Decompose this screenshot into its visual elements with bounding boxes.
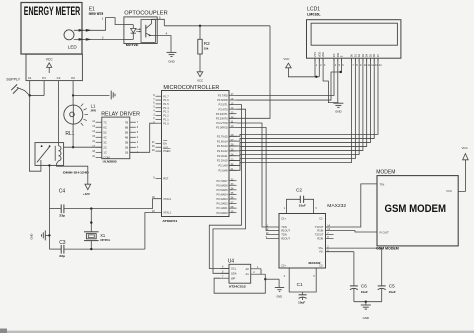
svg-text:R2OUT: R2OUT [281, 237, 290, 241]
svg-text:P1.2: P1.2 [163, 114, 169, 118]
svg-text:X1: X1 [100, 233, 106, 238]
svg-text:240V: 240V [91, 108, 97, 112]
svg-text:2C: 2C [103, 145, 106, 149]
node R2 top junction [199, 25, 201, 27]
svg-text:P1.1: P1.1 [163, 117, 169, 121]
svg-text:A1: A1 [246, 272, 250, 276]
crystal X1 [84, 207, 99, 250]
svg-text:D4: D4 [365, 53, 369, 57]
svg-text:ENERGY METER: ENERGY METER [24, 6, 81, 18]
svg-text:P2.1/A9: P2.1/A9 [218, 164, 228, 168]
wire RW to ground [337, 58, 339, 103]
svg-text:6B: 6B [125, 125, 128, 129]
node P2 branch [72, 94, 74, 96]
relay driver title [101, 112, 140, 118]
LED indicator circle [64, 30, 77, 50]
svg-text:3C: 3C [103, 140, 106, 144]
svg-text:T1OUT: T1OUT [315, 225, 324, 229]
svg-text:TIN: TIN [380, 183, 385, 187]
svg-text:U4: U4 [228, 259, 235, 265]
svg-text:A0: A0 [246, 267, 250, 271]
svg-text:P1.4: P1.4 [163, 106, 169, 110]
svg-text:33p: 33p [59, 254, 66, 258]
svg-text:6C: 6C [103, 125, 106, 129]
svg-text:R1OUT: R1OUT [281, 229, 290, 233]
wire D1 to P2.1 [229, 58, 355, 165]
svg-text:5B: 5B [125, 130, 128, 134]
LCD display box [307, 20, 401, 59]
capacitor C3 [49, 240, 144, 258]
svg-text:T1IN: T1IN [281, 225, 287, 229]
arrow marks on wire 1 [79, 29, 92, 32]
svg-text:P3.5/T1: P3.5/T1 [219, 103, 229, 107]
resistor R2 [198, 26, 210, 72]
svg-text:D2: D2 [357, 53, 361, 57]
label X1 CRYSTAL [100, 233, 110, 242]
wire D3 to P2.3 [229, 58, 363, 156]
label SUPPLY arrow wires [29, 81, 45, 97]
supply plug symbol [6, 77, 30, 95]
svg-text:MAX232: MAX232 [327, 203, 346, 209]
svg-text:SDA: SDA [231, 271, 237, 275]
svg-text:R1IN: R1IN [317, 229, 323, 233]
optocoupler coupling arrows [136, 28, 141, 32]
svg-text:P3.3/INT1: P3.3/INT1 [216, 112, 228, 116]
svg-text:AT89C51: AT89C51 [162, 219, 177, 223]
wire C2 to relay coil [58, 81, 60, 143]
svg-text:GND: GND [168, 59, 174, 63]
svg-text:P2.5/A13: P2.5/A13 [217, 144, 228, 148]
wire P2 to lamp [72, 81, 74, 106]
optocoupler LED diode [124, 25, 136, 40]
svg-text:P0.2/AD2: P0.2/AD2 [216, 202, 228, 206]
wire relay contact to crystal rail [48, 164, 50, 208]
svg-text:GSM MODEM: GSM MODEM [385, 203, 447, 215]
wire E to P3.6 [237, 58, 342, 100]
wire VS+ to C5 [326, 248, 382, 286]
svg-text:R OUT: R OUT [380, 231, 390, 235]
svg-text:P1.5: P1.5 [163, 102, 169, 106]
wire D4 to P2.4 [229, 58, 367, 151]
energy meter terminal box [26, 54, 82, 80]
svg-text:OPTOCOUPLER: OPTOCOUPLER [124, 10, 168, 16]
wire TXD to MAX232 T1IN [237, 123, 280, 227]
energy meter E1 box [21, 3, 82, 55]
wire C4 rail to XTAL2 [153, 199, 162, 209]
label L1 240V [91, 104, 97, 113]
VCC symbol in terminal box [46, 58, 54, 73]
svg-text:MODEM: MODEM [376, 169, 395, 175]
wire P2 branch to side terminal [73, 94, 109, 96]
svg-text:P0.1/AD1: P0.1/AD1 [216, 206, 228, 210]
svg-text:AT24C512: AT24C512 [229, 284, 247, 288]
svg-text:1B: 1B [125, 150, 128, 154]
capacitor C5 [378, 284, 396, 302]
wire VEE to ground [323, 58, 338, 102]
svg-text:D6: D6 [372, 53, 376, 57]
svg-text:P2.6/A14: P2.6/A14 [217, 139, 228, 143]
VCC symbol below R2 [197, 72, 203, 83]
svg-text:VCC: VCC [283, 57, 289, 61]
relay coil [55, 143, 61, 161]
svg-text:10uF: 10uF [389, 290, 396, 294]
svg-text:GND: GND [29, 234, 33, 240]
wire RXD to MAX232 R1OUT [237, 128, 280, 231]
svg-text:2B: 2B [125, 145, 128, 149]
svg-text:VS-: VS- [319, 250, 323, 254]
svg-text:C1: C1 [28, 76, 32, 80]
svg-text:RW: RW [336, 52, 340, 57]
optocoupler pin 4 emitter wire [151, 31, 171, 52]
svg-text:D0: D0 [350, 53, 354, 57]
left rail of crystal network [48, 209, 50, 250]
label GSM MODEM below box [376, 247, 399, 251]
wire opto output node [164, 25, 270, 27]
svg-text:D1: D1 [353, 53, 357, 57]
svg-text:C4: C4 [59, 188, 66, 194]
svg-text:C2+: C2+ [281, 264, 286, 268]
LCD1 label [307, 6, 320, 12]
svg-text:RST: RST [163, 177, 169, 181]
wire T1OUT to TIN [326, 184, 378, 227]
svg-text:P0.4/AD4: P0.4/AD4 [216, 193, 228, 197]
GSM modem pin labels [380, 183, 453, 235]
svg-text:WP: WP [231, 276, 236, 280]
svg-text:3B: 3B [125, 140, 128, 144]
wire E1 line 1 to optocoupler pin1 [74, 16, 124, 30]
label U4 [228, 259, 235, 265]
svg-text:L1: L1 [91, 104, 96, 109]
svg-text:P2.7/A15: P2.7/A15 [217, 134, 228, 138]
LCD pin labels and numbers [313, 52, 382, 67]
LCD LM016L label [307, 12, 321, 16]
svg-text:T2IN: T2IN [281, 233, 287, 237]
relay driver pin labels [92, 120, 139, 160]
svg-text:P2.2/A10: P2.2/A10 [217, 159, 228, 163]
svg-text:PSEN: PSEN [163, 149, 170, 153]
svg-text:C3: C3 [59, 240, 66, 246]
svg-text:ULN2803: ULN2803 [103, 160, 117, 164]
svg-text:GND: GND [363, 316, 369, 320]
svg-text:MCT2E: MCT2E [126, 43, 139, 47]
microcontroller U1 AT89C51 [152, 85, 237, 223]
svg-text:T2OUT: T2OUT [315, 233, 324, 237]
svg-text:EA: EA [163, 142, 167, 146]
wire D2 to P2.2 [229, 58, 359, 160]
wire E1 line 2 to optocoupler pin2 [74, 35, 124, 39]
scan artifact bottom edge [0, 329, 474, 333]
svg-text:VCC: VCC [446, 189, 452, 193]
svg-text:10uF: 10uF [298, 300, 305, 304]
svg-text:SCL: SCL [231, 267, 237, 271]
svg-text:LED: LED [68, 45, 78, 50]
svg-text:ALE: ALE [163, 145, 168, 149]
VCC arrow left of LCD [283, 57, 319, 77]
svg-text:GND: GND [276, 294, 282, 298]
svg-text:VDD: VDD [317, 52, 321, 58]
svg-text:10k: 10k [204, 46, 209, 50]
svg-text:P3.1/TXD: P3.1/TXD [216, 121, 227, 125]
svg-text:C5: C5 [389, 284, 395, 289]
optocoupler phototransistor [146, 23, 152, 37]
capacitor C2 [284, 188, 318, 214]
label RL1 [65, 131, 74, 137]
svg-text:P1.3: P1.3 [163, 110, 169, 114]
MAX232 pin labels [266, 216, 334, 267]
wire D5 to P2.5 [229, 58, 370, 146]
svg-text:XTAL2: XTAL2 [163, 197, 171, 201]
svg-text:VEE: VEE [321, 52, 325, 57]
svg-text:C1+: C1+ [281, 216, 286, 220]
svg-text:VCC: VCC [46, 58, 54, 62]
wire P3.5 to U4 SCL [209, 105, 241, 269]
wire supply to relay common [29, 96, 41, 172]
svg-text:SUPPLY: SUPPLY [6, 77, 21, 81]
svg-text:C1: C1 [297, 282, 303, 287]
wire RS to P3.7 [237, 58, 335, 95]
svg-text:VS+: VS+ [318, 246, 323, 250]
svg-text:E: E [339, 55, 343, 57]
wire A0 A1 to ground [261, 269, 279, 288]
svg-text:P0.5/AD5: P0.5/AD5 [216, 188, 228, 192]
wire VS- to C6 [326, 252, 354, 286]
svg-text:C2-: C2- [319, 264, 323, 268]
wire ULN 1B to P1.0 [130, 123, 156, 152]
wire relay coil to +12V [57, 161, 88, 184]
svg-text:VCC: VCC [462, 146, 468, 150]
optocoupler U box MCT2E [124, 17, 157, 47]
svg-text:P2.3/A11: P2.3/A11 [217, 154, 228, 158]
svg-text:VSS: VSS [313, 52, 317, 57]
svg-text:C1-: C1- [319, 216, 323, 220]
wire VSS to VCC node [314, 58, 316, 77]
optocoupler pin 5 collector wire [152, 16, 165, 26]
optocoupler title [124, 10, 168, 16]
svg-text:P0.6/AD6: P0.6/AD6 [216, 183, 228, 187]
svg-text:CRYSTAL: CRYSTAL [100, 238, 110, 242]
relay driver U2 box ULN2803 [102, 117, 130, 164]
svg-text:C6: C6 [361, 284, 367, 289]
ground under LCD [333, 103, 343, 113]
energy meter title [24, 6, 81, 18]
svg-text:P1.6: P1.6 [163, 98, 169, 102]
svg-text:RS: RS [332, 53, 336, 57]
svg-text:C2: C2 [296, 188, 302, 193]
+12V arrow [83, 184, 91, 196]
svg-text:P1: P1 [42, 76, 46, 80]
side ground terminal symbol [111, 91, 115, 100]
svg-text:GND: GND [335, 110, 341, 114]
svg-text:P1.0: P1.0 [163, 121, 169, 125]
svg-text:P2.0/A8: P2.0/A8 [218, 168, 228, 172]
ground tap left [29, 230, 50, 240]
ground rail for C5 C6 [354, 301, 382, 305]
svg-text:4C: 4C [103, 135, 106, 139]
svg-text:P2.4/A12: P2.4/A12 [217, 149, 228, 153]
svg-text:P3.7/RD: P3.7/RD [218, 94, 228, 98]
relay contacts and blade [37, 145, 51, 165]
ground under U4 [275, 288, 284, 299]
svg-text:P1.7: P1.7 [163, 94, 169, 98]
svg-text:P3.6/WR: P3.6/WR [217, 98, 228, 102]
svg-text:P3.0/RXD: P3.0/RXD [216, 125, 228, 129]
svg-text:C2: C2 [57, 76, 61, 80]
GSM MODEM title [385, 203, 447, 215]
svg-text:D3: D3 [361, 53, 365, 57]
wire D7 to P2.7 [229, 58, 378, 136]
label E1 [89, 6, 95, 12]
svg-text:GSM MODEM: GSM MODEM [376, 247, 399, 251]
wire VDD to VCC node [315, 58, 319, 78]
svg-text:D5: D5 [368, 53, 372, 57]
label MODEM [376, 169, 395, 175]
svg-text:R2IN: R2IN [317, 237, 323, 241]
capacitor C6 [350, 284, 368, 302]
wire C3 rail to XTAL1 [145, 213, 162, 250]
wire lamp to relay coil wire [72, 124, 74, 148]
svg-text:XTAL1: XTAL1 [163, 211, 171, 215]
ground symbol below C5 C6 [361, 305, 371, 320]
svg-text:LM016L: LM016L [307, 12, 321, 16]
svg-text:5C: 5C [103, 130, 106, 134]
svg-text:ENERGY METER: ENERGY METER [89, 12, 104, 16]
svg-text:7C: 7C [103, 120, 106, 124]
arrow marks on wire 2 [79, 38, 92, 41]
svg-text:OMIH-SH-124D: OMIH-SH-124D [63, 171, 89, 175]
svg-text:VCC: VCC [197, 78, 203, 82]
svg-text:P3.4/T0: P3.4/T0 [219, 107, 229, 111]
capacitor C1 [284, 268, 317, 304]
lamp L1 [64, 104, 88, 126]
VCC arrow for GSM modem [458, 146, 468, 191]
svg-text:P3.2/INT0: P3.2/INT0 [216, 116, 228, 120]
wire R1IN to R OUT [326, 231, 378, 232]
svg-text:7B: 7B [125, 120, 128, 124]
ground under optocoupler [167, 52, 177, 63]
MAX232 U3 box [279, 203, 346, 268]
svg-text:R2: R2 [204, 41, 210, 46]
svg-text:P0.0/AD0: P0.0/AD0 [216, 211, 228, 215]
U4 pin labels [231, 267, 249, 281]
svg-text:33p: 33p [59, 214, 66, 218]
svg-text:+12V: +12V [83, 192, 90, 196]
terminal labels C1 P1 C2 P2 [28, 76, 75, 80]
svg-text:1C: 1C [103, 150, 106, 154]
wire D6 to P2.6 [229, 58, 374, 141]
svg-text:P0.3/AD3: P0.3/AD3 [216, 197, 228, 201]
relay RL1 box [35, 143, 64, 166]
svg-text:P2: P2 [71, 76, 75, 80]
wire WP loop to ground [214, 278, 265, 293]
svg-text:COM: COM [103, 155, 110, 159]
EEPROM U4 box AT24C512 [229, 264, 251, 288]
wire D0 to P2.0 [229, 58, 352, 170]
wire P3.4 to U4 SDA [213, 109, 246, 273]
label OMIH-SH-124D [63, 171, 89, 175]
svg-text:P0.7/AD7: P0.7/AD7 [216, 179, 228, 183]
GSM modem box [377, 176, 458, 246]
svg-text:10uF: 10uF [299, 204, 306, 208]
label E1 ENERGY METER [89, 12, 104, 16]
capacitor C4 [49, 188, 152, 217]
wire opto to INT0 [229, 26, 270, 119]
svg-text:4B: 4B [125, 135, 128, 139]
wire relay coil top to ULN 2C [64, 146, 102, 148]
svg-text:D7: D7 [376, 53, 380, 57]
svg-text:10uF: 10uF [361, 290, 368, 294]
U4 pin stubs and numbers [220, 266, 265, 279]
